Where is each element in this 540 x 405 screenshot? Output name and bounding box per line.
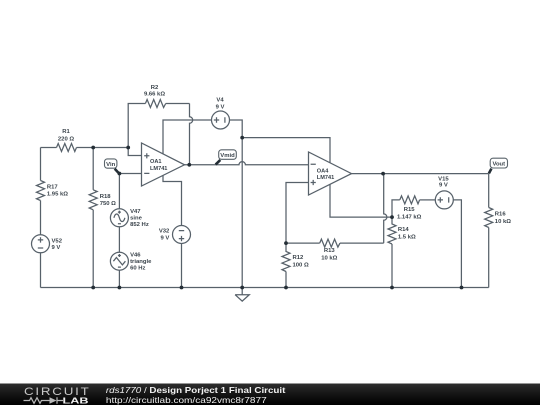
wire V4 right to corner down — [230, 120, 243, 138]
wire top rail from left corner to R1 — [41, 147, 57, 149]
wire Vin node down to V47 — [118, 174, 120, 209]
node R12 R13 — [284, 241, 288, 245]
svg-text:V4: V4 — [216, 98, 224, 104]
node flag Vin — [105, 159, 120, 174]
logo wire resistor diode — [24, 397, 64, 403]
node plus input — [126, 146, 130, 150]
wire R12 node to R13 — [286, 242, 320, 244]
svg-text:220 Ω: 220 Ω — [58, 137, 74, 143]
svg-text:60 Hz: 60 Hz — [130, 266, 145, 272]
footer bar — [0, 384, 540, 405]
wire R2 right lead and corner — [166, 103, 190, 105]
wire R15 to V15 — [420, 199, 436, 201]
wire OA4 Vminus pin to R15 R14 node — [330, 184, 392, 217]
source V4 — [212, 111, 230, 129]
node rail R18 — [91, 286, 95, 290]
wire R17 to V52 — [40, 201, 42, 235]
wire R18 top lead — [92, 148, 94, 190]
op-amp OA1 — [142, 143, 185, 186]
svg-text:852 Hz: 852 Hz — [130, 222, 149, 228]
wire V15 right corner to bottom rail — [453, 200, 461, 288]
svg-text:V47: V47 — [130, 209, 141, 215]
svg-text:9 V: 9 V — [52, 245, 61, 251]
node OA1 output — [187, 163, 191, 167]
wire bottom rail — [41, 287, 489, 289]
resistor R13 — [320, 239, 340, 247]
svg-text:9 V: 9 V — [160, 236, 169, 242]
wire Vin node to OA1 minus input — [119, 173, 141, 175]
wire V47 to V46 — [118, 227, 120, 252]
svg-text:LM741: LM741 — [150, 166, 167, 172]
wire left rail top (to R17) — [40, 148, 42, 181]
logo diode triangle — [50, 397, 57, 403]
wire V4 node to OA4 Vplus pin — [242, 138, 330, 163]
svg-text:10 kΩ: 10 kΩ — [495, 219, 511, 225]
ground — [235, 288, 249, 302]
node rail R12 — [284, 286, 288, 290]
node R15 R14 — [390, 215, 394, 219]
node flag Vmid — [216, 150, 237, 165]
node OA4 output — [381, 172, 385, 176]
resistor R14 — [388, 217, 396, 244]
source V47 — [110, 209, 128, 227]
svg-text:Vmid: Vmid — [220, 153, 235, 159]
svg-text:R18: R18 — [100, 194, 112, 200]
svg-text:LM741: LM741 — [317, 175, 334, 181]
wire OA1 Vplus pin to V4 — [163, 120, 212, 154]
wire V32 to bottom rail — [181, 244, 183, 288]
resistor R18 — [89, 190, 97, 210]
svg-text:http://circuitlab.com/ca92vmc8: http://circuitlab.com/ca92vmc8r7877 — [106, 396, 267, 405]
svg-text:9 V: 9 V — [439, 182, 448, 188]
svg-text:rds1770 / Design Porject 1 Fin: rds1770 / Design Porject 1 Final Circuit — [106, 386, 286, 395]
svg-text:Vin: Vin — [106, 162, 115, 168]
resistor R17 — [37, 181, 45, 201]
svg-text:sine: sine — [130, 216, 143, 222]
svg-text:1.5 kΩ: 1.5 kΩ — [398, 235, 416, 241]
svg-text:R13: R13 — [324, 248, 336, 254]
node rail V32 — [180, 286, 184, 290]
wire V46 to bottom rail — [118, 270, 120, 287]
svg-text:triangle: triangle — [130, 259, 152, 265]
node rail ground — [240, 286, 244, 290]
wire R18 bottom lead — [92, 210, 94, 288]
wire OA4 output down to R13 with hop — [384, 174, 387, 244]
wire node up to R15 — [392, 200, 400, 217]
wire R2 down to OA1 output with hop — [190, 104, 193, 165]
svg-text:R12: R12 — [293, 255, 305, 261]
svg-text:R1: R1 — [62, 129, 70, 135]
svg-text:1.147 kΩ: 1.147 kΩ — [397, 215, 422, 221]
wire OA4 output to Vout corner — [352, 173, 489, 175]
node rail V46 — [118, 286, 122, 290]
wire V4 node to ground rail — [241, 138, 243, 288]
source V15 — [435, 191, 453, 209]
resistor R1 — [57, 144, 77, 152]
resistor R16 — [485, 208, 493, 228]
svg-text:V52: V52 — [52, 239, 63, 245]
source V46 — [110, 252, 128, 270]
node rail V15 — [460, 286, 464, 290]
source V52 — [32, 235, 50, 253]
wire R13 right to output branch — [340, 242, 384, 244]
wire plus node up to R2 — [128, 104, 145, 148]
wire OA4 plus input branch — [286, 183, 309, 244]
svg-text:V46: V46 — [130, 252, 141, 258]
svg-text:100 Ω: 100 Ω — [293, 263, 309, 269]
svg-text:R15: R15 — [404, 207, 416, 213]
wire R1 right to plus node — [77, 147, 129, 149]
svg-text:10 kΩ: 10 kΩ — [321, 256, 337, 262]
wire R12 to bottom rail — [285, 272, 287, 288]
node rail R14 — [390, 286, 394, 290]
svg-text:9.66 kΩ: 9.66 kΩ — [144, 92, 165, 98]
svg-text:R17: R17 — [47, 185, 59, 191]
op-amp OA4 — [309, 152, 352, 195]
resistor R2 — [145, 100, 165, 108]
svg-text:R16: R16 — [495, 212, 507, 218]
wire V52 to bottom rail — [40, 253, 42, 288]
svg-text:750 Ω: 750 Ω — [100, 201, 116, 207]
node V4 — [240, 136, 244, 140]
node R1 R18 — [91, 146, 95, 150]
svg-text:OA4: OA4 — [317, 169, 329, 175]
wire Vout corner down to R16 — [488, 174, 490, 208]
svg-text:LAB: LAB — [63, 395, 89, 405]
wire plus node to OA1 plus input — [128, 148, 141, 156]
resistor R12 — [282, 243, 290, 271]
svg-text:V32: V32 — [159, 228, 170, 234]
svg-text:Vout: Vout — [492, 161, 505, 167]
svg-text:R14: R14 — [398, 227, 410, 233]
wire R14 to bottom rail — [391, 244, 393, 288]
svg-text:R2: R2 — [151, 85, 159, 91]
resistor R15 — [400, 196, 420, 204]
node Vin — [118, 172, 122, 176]
node flag Vout — [489, 158, 508, 173]
wire OA1 output to OA4 minus input with hop — [185, 162, 309, 165]
wire OA1 Vminus pin to V32 — [163, 175, 182, 225]
svg-text:OA1: OA1 — [150, 159, 162, 165]
svg-text:9 V: 9 V — [216, 104, 225, 110]
source V32 — [173, 226, 191, 244]
svg-text:1.95 kΩ: 1.95 kΩ — [47, 192, 68, 198]
wire R16 to bottom rail — [488, 228, 490, 288]
